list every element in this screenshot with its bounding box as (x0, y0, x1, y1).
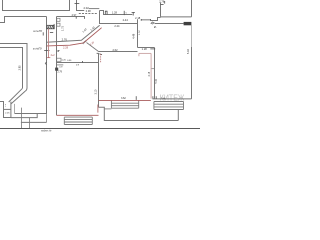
svg-text:2.97: 2.97 (72, 14, 77, 17)
svg-text:3.10: 3.10 (95, 89, 98, 94)
svg-text:2.18: 2.18 (135, 16, 141, 20)
svg-text:2-44: 2-44 (123, 18, 129, 22)
svg-text:1.28: 1.28 (112, 10, 118, 14)
svg-text:1.28: 1.28 (142, 47, 148, 51)
svg-text:0.98: 0.98 (86, 10, 91, 13)
svg-text:2.76: 2.76 (62, 37, 68, 41)
svg-text:3.62: 3.62 (121, 97, 126, 100)
svg-text:2.85: 2.85 (18, 65, 22, 71)
svg-text:2.: 2. (154, 25, 157, 29)
svg-text:1.75: 1.75 (60, 25, 64, 31)
svg-text:надел №: надел № (41, 130, 52, 133)
svg-text:5.32: 5.32 (156, 78, 158, 83)
svg-text:5.32: 5.32 (186, 49, 190, 55)
svg-text:2.44: 2.44 (114, 24, 120, 28)
svg-text:2.28: 2.28 (63, 46, 69, 50)
svg-text:2.62: 2.62 (112, 48, 118, 52)
svg-text:2.18: 2.18 (149, 71, 151, 76)
svg-text:2.79: 2.79 (57, 72, 62, 74)
svg-text:2+2: 2+2 (51, 54, 56, 57)
svg-text:2.78: 2.78 (159, 0, 165, 3)
svg-text:4.48: 4.48 (131, 33, 135, 39)
svg-text:эл.№ПУ: эл.№ПУ (33, 48, 43, 51)
svg-text:эл.№ПУ: эл.№ПУ (33, 30, 43, 33)
